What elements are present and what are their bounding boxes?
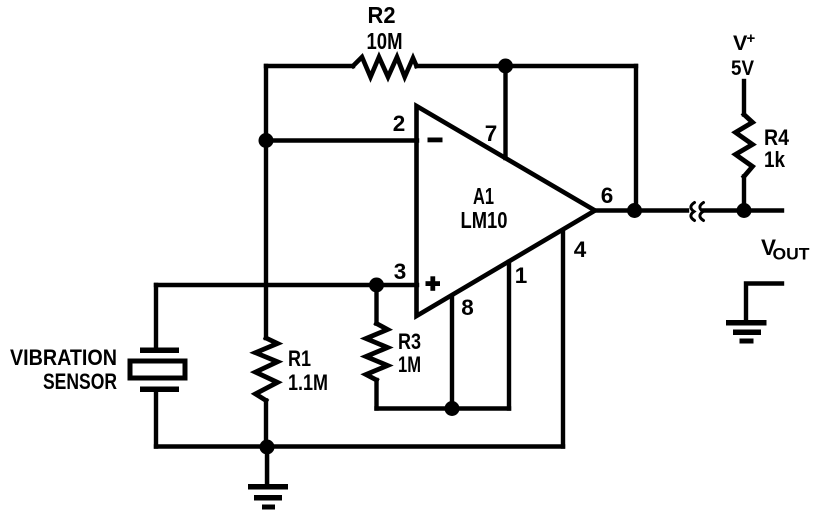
resistor R4 [736, 81, 753, 211]
line break symbol on output wire [691, 203, 704, 221]
node pin2 junction [259, 133, 274, 148]
svg-text:R2: R2 [368, 2, 396, 28]
node pin8 junction [445, 401, 460, 416]
wire pin1 vertical [507, 262, 511, 409]
svg-text:3: 3 [394, 259, 407, 284]
op-amp plus sign [426, 276, 441, 291]
wire sensor bottom lead [154, 390, 158, 447]
node output feedback junction [627, 203, 642, 218]
svg-text:1k: 1k [764, 147, 785, 172]
resistor R3 [366, 285, 388, 409]
wire pin8 vertical [450, 297, 454, 409]
svg-text:7: 7 [485, 121, 498, 146]
svg-text:+: + [747, 30, 756, 47]
svg-text:LM10: LM10 [461, 207, 508, 233]
wire VOUT ground stub [746, 284, 782, 322]
node ground junction [260, 440, 275, 455]
ground (VOUT reference) [726, 320, 767, 344]
op-amp A1 triangle [417, 106, 596, 316]
wire pin2 horizontal [266, 138, 417, 142]
svg-text:5V: 5V [731, 56, 755, 80]
wire pin4 vertical [561, 231, 565, 447]
wire feedback right vertical [634, 66, 638, 211]
wire left vertical upper [264, 66, 268, 338]
svg-text:6: 6 [601, 183, 614, 208]
svg-text:2: 2 [393, 111, 406, 136]
resistor R2 [353, 57, 417, 77]
svg-text:OUT: OUT [773, 246, 810, 264]
wire output segment right of break [704, 208, 782, 212]
node pin3 junction [369, 278, 384, 293]
svg-text:1: 1 [515, 263, 528, 288]
svg-text:SENSOR: SENSOR [43, 369, 117, 394]
resistor R1 [256, 338, 278, 401]
wire top rail left segment [266, 64, 353, 68]
svg-text:4: 4 [574, 237, 587, 262]
vibration sensor piezo element [130, 348, 185, 393]
svg-text:R1: R1 [288, 346, 311, 371]
wire left vertical lower [264, 401, 268, 447]
svg-text:VIBRATION: VIBRATION [10, 345, 117, 370]
wire bottom rail [156, 444, 563, 448]
wire sensor top lead [154, 285, 158, 349]
svg-text:1M: 1M [398, 352, 421, 377]
op-amp minus sign [428, 138, 443, 143]
ground (bottom center) [248, 447, 288, 510]
wire pin3 horizontal [156, 283, 417, 287]
wire pin7 vertical [503, 66, 507, 158]
node R4 output junction [737, 203, 752, 218]
wire top rail right segment [417, 64, 637, 68]
svg-text:10M: 10M [367, 28, 403, 54]
wire R3 bottom horizontal [377, 406, 510, 410]
svg-text:1.1M: 1.1M [288, 370, 328, 395]
node pin7 junction [498, 59, 513, 74]
wire output segment left of break [595, 208, 687, 212]
svg-text:8: 8 [461, 295, 474, 320]
svg-text:R3: R3 [398, 329, 421, 354]
svg-text:A1: A1 [473, 183, 494, 209]
